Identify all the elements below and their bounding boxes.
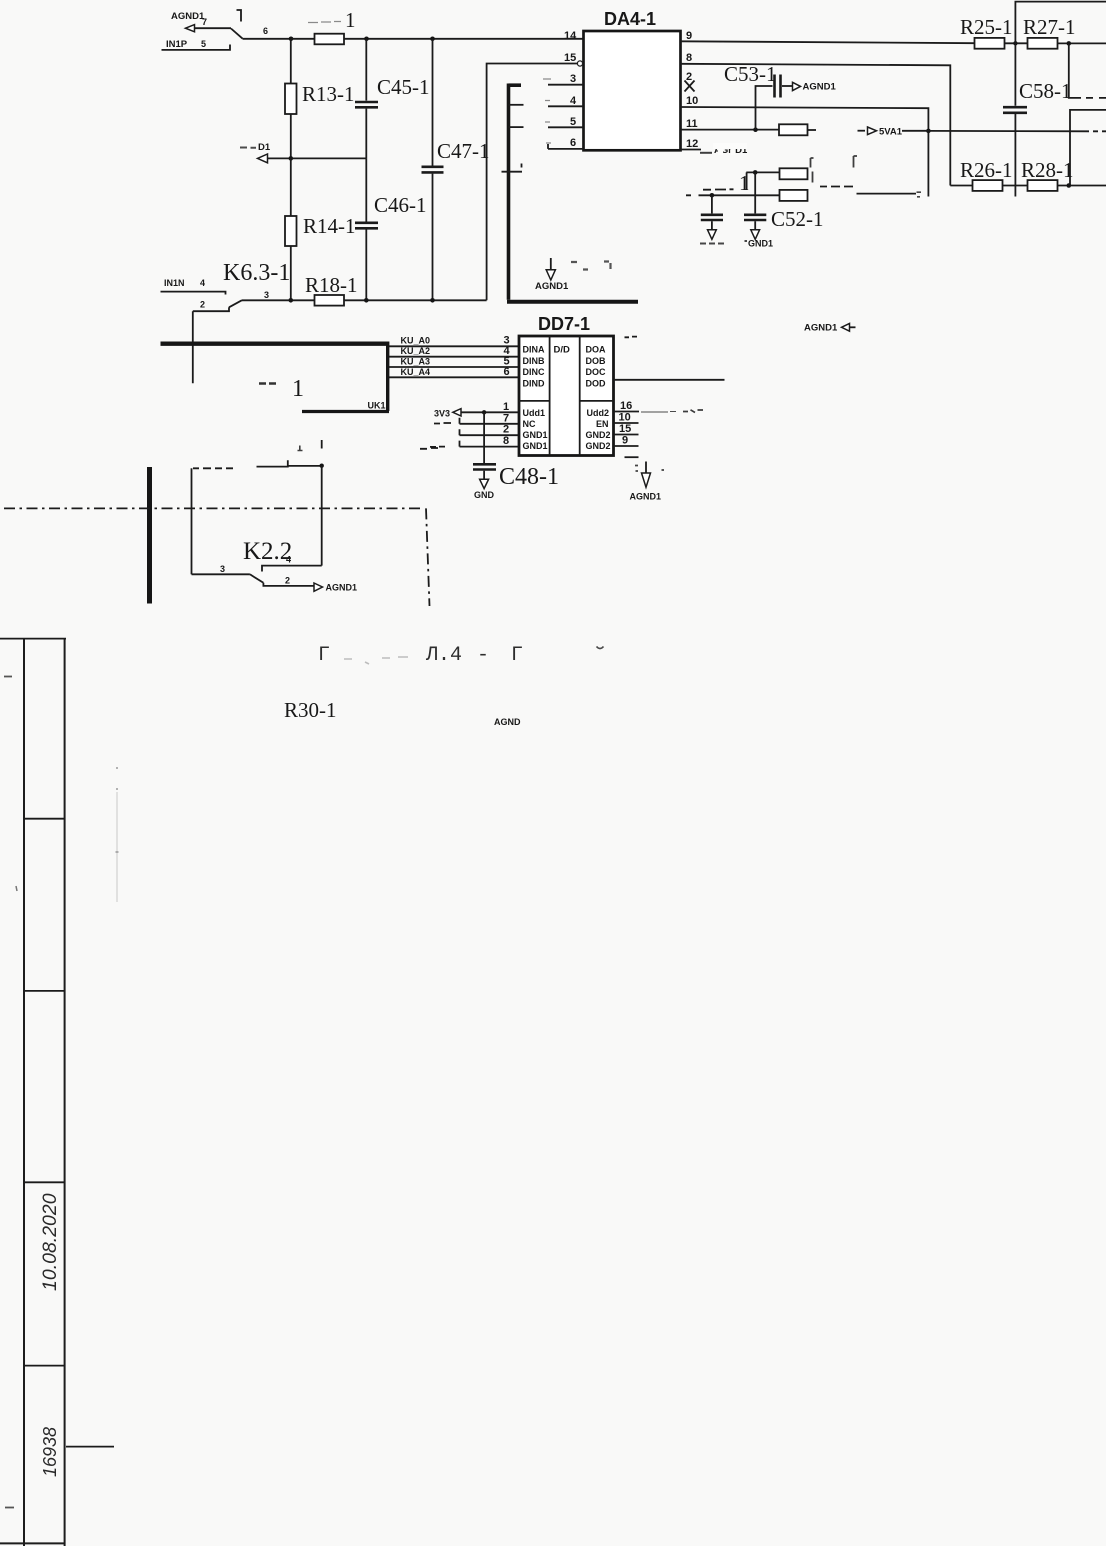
svg-text:10: 10 bbox=[686, 95, 698, 107]
title block bottom border bbox=[0, 1542, 65, 1544]
erased remnant right of R23 bbox=[812, 172, 814, 183]
erased label remnants inside UK1 box bbox=[259, 376, 304, 402]
svg-text:K2.2: K2.2 bbox=[243, 538, 292, 565]
wire AGND1 arrow to node D bbox=[268, 157, 367, 159]
svg-text:UK1: UK1 bbox=[368, 401, 386, 411]
resistor R21 (label erased) body on pin11 row bbox=[779, 124, 808, 135]
resistor R26-1 body bbox=[973, 180, 1003, 191]
capacitor C46-1 bottom wire bbox=[365, 230, 367, 301]
svg-text:10.08.2020: 10.08.2020 bbox=[39, 1193, 61, 1291]
erased 5VA1 remnant marks bbox=[683, 410, 703, 413]
svg-text:3: 3 bbox=[264, 290, 269, 300]
IC DD7-1 body box bbox=[519, 336, 614, 456]
svg-text:4: 4 bbox=[286, 555, 291, 565]
resistor R27-1 body bbox=[1028, 38, 1058, 49]
erased resistor R24 body bbox=[780, 190, 808, 201]
relay contact K2.2 pin3 lead bbox=[192, 573, 250, 575]
relay contact K6.3-1 pin2 lead bbox=[193, 307, 229, 311]
wire R21 to erased component bbox=[808, 129, 817, 131]
net arrow AGND1 (K2.2 pin2) bbox=[314, 583, 323, 591]
svg-text:1: 1 bbox=[292, 376, 304, 402]
svg-text:15: 15 bbox=[564, 52, 576, 64]
svg-text:R30-1: R30-1 bbox=[284, 698, 337, 722]
thin erased continuation of pin16 wire bbox=[641, 411, 676, 414]
capacitor C51 stem to ground arrow bbox=[711, 221, 713, 230]
svg-text:R26-1: R26-1 bbox=[960, 158, 1013, 182]
capacitor C53-1 riser and left lead bbox=[756, 86, 773, 130]
svg-text:1: 1 bbox=[739, 171, 750, 195]
svg-text:D/D: D/D bbox=[554, 345, 571, 356]
net arrow 3V3 (open triangle left) bbox=[453, 409, 461, 416]
svg-text:C48-1: C48-1 bbox=[499, 464, 559, 490]
svg-text:GND1: GND1 bbox=[523, 441, 548, 451]
svg-text:7: 7 bbox=[503, 412, 509, 424]
svg-text:GND1: GND1 bbox=[748, 239, 773, 249]
svg-text:5: 5 bbox=[570, 116, 576, 128]
junction dot R27 output bbox=[1067, 41, 1072, 46]
relay contact K6.2 pin7 AGND1 label bbox=[171, 11, 207, 27]
erased wire dashes to edge y98 bbox=[1086, 97, 1106, 99]
erased dashes under 3V3 bbox=[434, 422, 451, 425]
capacitor C52-1 stem to ground arrow bbox=[754, 221, 756, 230]
capacitor C53-1 plates (vertical) bbox=[775, 75, 781, 98]
pin 2 no-connect X mark bbox=[685, 81, 695, 92]
pin 6 stub wire with erased hook bbox=[548, 144, 583, 149]
wire KU_A4 from UK1 to DD7 pin6 bbox=[389, 376, 518, 378]
wire K6.3-1 pin2 down (dangling into erased area) bbox=[192, 311, 194, 383]
svg-text:14: 14 bbox=[564, 30, 577, 42]
ground arrow AGND1 (C51, open triangle down) bbox=[708, 230, 717, 240]
node C junction dot (C47 top) bbox=[430, 37, 435, 42]
erased IC DA3 left edge (thick) bbox=[507, 84, 511, 300]
svg-text:C46-1: C46-1 bbox=[374, 193, 427, 217]
wire R24 row continuing to riser bbox=[857, 193, 917, 195]
erased connector UK1 bottom edge (thick) bbox=[302, 410, 389, 413]
relay contact K6.2 blade (pin7 to pin6) bbox=[231, 29, 243, 39]
ground symbol AGND1 right of C48 (erased stem) bbox=[630, 462, 665, 502]
resistor R14-1 bottom wire bbox=[290, 246, 292, 300]
title block divider 4 bbox=[24, 1365, 65, 1367]
svg-text:C45-1: C45-1 bbox=[377, 75, 430, 99]
resistor R18-1 body bbox=[315, 295, 345, 306]
svg-text:DINC: DINC bbox=[523, 367, 545, 377]
svg-text:R18-1: R18-1 bbox=[305, 273, 358, 297]
wire from AGND1 arrow to switch blade bbox=[195, 27, 232, 29]
svg-text:DOC: DOC bbox=[586, 367, 607, 377]
svg-text:AGND: AGND bbox=[494, 717, 521, 727]
svg-text:4: 4 bbox=[200, 278, 205, 288]
net arrow AGND1 at node D (open triangle left) bbox=[258, 154, 268, 163]
wire DD7 pin16 (5VA1 erased) bbox=[614, 411, 640, 413]
net arrow AGND1 (top left, open triangle) bbox=[186, 25, 195, 32]
terminal line IN1P with end tick bbox=[162, 45, 231, 50]
junction dot C51 tap bbox=[710, 193, 715, 198]
junction dot 5VA1 node bbox=[926, 129, 931, 134]
svg-text:Udd2: Udd2 bbox=[587, 408, 610, 418]
wire R24 to erased region remnants bbox=[820, 186, 853, 188]
resistor R14-1 body bbox=[285, 216, 297, 246]
wire riser to DA4 pin15 bbox=[487, 64, 578, 301]
capacitor C46-1 top wire bbox=[365, 158, 367, 221]
terminal IN1P pin5 label bbox=[166, 39, 206, 50]
erased remnant marks above hook bbox=[298, 446, 303, 451]
terminal IN1N pin4 label bbox=[164, 278, 205, 288]
erased dashes right of DD7 top bbox=[625, 336, 638, 339]
erased IC DA3 pin stub y127 bbox=[509, 126, 524, 128]
capacitor C45-1 bottom wire bbox=[365, 109, 367, 159]
dash-dot boundary horizontal bbox=[4, 507, 422, 509]
svg-text:R14-1: R14-1 bbox=[303, 214, 356, 238]
faint dots scan artifacts bbox=[116, 768, 119, 852]
erased dashes right of junction bbox=[420, 447, 438, 450]
resistor R25-1 body bbox=[975, 38, 1005, 49]
wire R27-1 to right edge bbox=[1058, 42, 1106, 44]
svg-text:AGND1: AGND1 bbox=[171, 11, 205, 22]
ground symbol AGND1 under erased IC DA3 bbox=[535, 258, 569, 292]
svg-text:3: 3 bbox=[220, 564, 225, 574]
svg-text:16938: 16938 bbox=[40, 1427, 60, 1477]
svg-text:DA4-1: DA4-1 bbox=[604, 9, 656, 29]
svg-text:2: 2 bbox=[686, 71, 692, 83]
wire DD7 pin7 with hook bbox=[460, 418, 519, 424]
svg-text:C52-1: C52-1 bbox=[771, 207, 824, 231]
junction dot C52 top tap bbox=[753, 170, 758, 175]
svg-text:1: 1 bbox=[503, 401, 509, 413]
stray mark left margin 2 bbox=[16, 886, 17, 891]
svg-text:GND2: GND2 bbox=[586, 441, 611, 451]
svg-text:R25-1: R25-1 bbox=[960, 15, 1013, 39]
resistor R13-1 wire bottom to AGND node bbox=[290, 114, 292, 158]
capacitor C48-1 stem bbox=[483, 471, 485, 480]
capacitor C47-1 bottom wire bbox=[432, 174, 434, 301]
wire hook from right edge into R28 junction bbox=[1070, 110, 1106, 186]
svg-text:Udd1: Udd1 bbox=[523, 408, 546, 418]
relay contact K2.2 blade bbox=[250, 574, 264, 583]
erased fragment of pin4 riser above junction bbox=[321, 440, 323, 449]
wire DD7 pin2 with hook bbox=[460, 429, 519, 435]
wire DD7 pin8 with hook bbox=[460, 441, 519, 447]
svg-text:8: 8 bbox=[686, 52, 692, 64]
node B junction dot (C45 top) bbox=[364, 37, 369, 42]
erased IC DA3 pin stub y172 crossing edge bbox=[502, 171, 523, 173]
erased IC DA3 top edge fragment bbox=[509, 83, 522, 87]
svg-text:DOD: DOD bbox=[586, 379, 607, 389]
DD7-1 internal horizontal divider bbox=[519, 400, 614, 402]
DD7-1 internal divider right column bbox=[579, 336, 581, 456]
bottom wire blade to node E bbox=[242, 299, 315, 301]
caption erased tail remnant (breve) bbox=[597, 647, 604, 649]
wire DD7 pin15 bbox=[614, 434, 639, 436]
svg-text:AGND1: AGND1 bbox=[803, 82, 837, 93]
capacitor C48-1 plates bbox=[473, 464, 496, 469]
erased box corner remnants on row y173 bbox=[811, 156, 858, 168]
erased AGND1 label remnant near node D bbox=[240, 142, 271, 153]
svg-text:DINA: DINA bbox=[523, 345, 545, 355]
wire 5VA1 label to junction bbox=[902, 130, 928, 132]
svg-text:6: 6 bbox=[263, 26, 268, 36]
svg-text:K6.3-1: K6.3-1 bbox=[223, 260, 290, 286]
bottom wire R18-1 to pin15 riser bbox=[344, 299, 487, 301]
svg-text:R28-1: R28-1 bbox=[1021, 158, 1074, 182]
svg-text:KU_A0: KU_A0 bbox=[401, 336, 431, 346]
erased wire dashes 5VA1 row to edge bbox=[1093, 130, 1106, 132]
svg-text:10: 10 bbox=[619, 412, 631, 424]
erased label remnant "]" above switch bbox=[237, 10, 242, 22]
erased component remnant dash before 5VA1 bbox=[858, 130, 866, 132]
capacitor C47-1 plates bbox=[422, 167, 444, 173]
svg-text:9: 9 bbox=[622, 434, 628, 446]
erased wire dashes right of riser top bbox=[193, 467, 233, 469]
svg-text:DOB: DOB bbox=[586, 356, 607, 366]
erased resistor R23 row: left end and stub bbox=[746, 172, 779, 189]
capacitor C52-1 plates bbox=[744, 215, 766, 220]
junction dot C53 tap bbox=[753, 127, 758, 132]
capacitor C51 plates bbox=[701, 215, 723, 220]
svg-text:3: 3 bbox=[570, 73, 576, 85]
wire segment with hook to K2.2 pin4 riser bbox=[257, 460, 322, 466]
svg-text:IN1N: IN1N bbox=[164, 278, 185, 288]
title block right vertical border bbox=[64, 639, 66, 1546]
wire DD7 pin9 bbox=[614, 445, 639, 447]
svg-text:5VA1: 5VA1 bbox=[879, 127, 903, 138]
resistor R17 (label erased) body bbox=[315, 34, 345, 45]
ground arrow GND (C48, open triangle down) bbox=[480, 479, 489, 488]
svg-text:4: 4 bbox=[570, 95, 577, 107]
resistor R14-1 top wire bbox=[290, 158, 292, 216]
node A junction dot bbox=[289, 37, 294, 42]
relay contact K2.2 pin2 lead bbox=[263, 583, 313, 586]
svg-text:3V3: 3V3 bbox=[434, 409, 450, 419]
pin 15 inversion circle bbox=[577, 61, 582, 66]
svg-text:7: 7 bbox=[202, 17, 207, 27]
erased AGND1 remnant right of pin12 bbox=[700, 143, 748, 156]
svg-text:9: 9 bbox=[686, 30, 692, 42]
junction dot C47 bottom bbox=[430, 298, 435, 303]
capacitor C47-1 top wire bbox=[432, 39, 434, 166]
stray mark left margin 1 bbox=[4, 676, 12, 678]
svg-text:8: 8 bbox=[503, 435, 509, 447]
capacitor C45-1 plates bbox=[355, 102, 378, 107]
wire DD7 pin10 bbox=[614, 422, 639, 424]
capacitor C46-1 plates bbox=[355, 223, 378, 229]
capacitor C45-1 top wire bbox=[365, 39, 367, 101]
wire DA4 pin10 right then down bbox=[681, 107, 929, 197]
wire DA4 pin9 to R25-1 bbox=[681, 41, 975, 43]
wire K2.2 node riser (left vertical) bbox=[191, 468, 193, 574]
erased label remnant above R17 bbox=[308, 8, 356, 32]
junction dot C58 top node bbox=[1013, 41, 1017, 45]
svg-text:AGND1: AGND1 bbox=[326, 583, 358, 593]
wire switch K6.2 to node A (top wire) bbox=[243, 38, 292, 40]
caption erased word remnants bbox=[344, 657, 408, 664]
resistor R13-1 vertical wire top bbox=[290, 39, 292, 84]
title block divider 2 bbox=[24, 990, 65, 992]
svg-text:6: 6 bbox=[504, 366, 510, 378]
pin 5 stub wire bbox=[548, 126, 583, 128]
thick bus bar left (erased area boundary) bbox=[147, 467, 152, 604]
erased dashes left of pin8 wire bbox=[430, 446, 445, 448]
dash-dot boundary vertical bbox=[426, 508, 430, 606]
small remnant tick above stub bbox=[521, 164, 523, 168]
capacitor C58-1 plates bbox=[1003, 107, 1027, 113]
svg-text:R13-1: R13-1 bbox=[302, 82, 355, 106]
svg-text:1: 1 bbox=[345, 8, 356, 32]
faint vertical scan artifact bbox=[116, 792, 118, 902]
svg-text:6: 6 bbox=[570, 137, 576, 149]
svg-text:DIND: DIND bbox=[523, 379, 545, 389]
svg-text:2: 2 bbox=[503, 424, 509, 436]
pin 3 stub wire bbox=[548, 84, 583, 86]
stray mark left margin 3 bbox=[5, 1507, 14, 1509]
wire DA4 pin11 to R21 bbox=[681, 129, 780, 131]
svg-text:12: 12 bbox=[686, 138, 698, 150]
net arrow 5VA1 (open triangle right) bbox=[868, 127, 877, 135]
erased label dashes above R24 row bbox=[703, 188, 734, 190]
erased IC DA3 bottom edge (thick) bbox=[507, 300, 638, 304]
resistor R28-1 body bbox=[1028, 180, 1058, 191]
ground arrow GND1 (C52, open triangle down) bbox=[751, 230, 760, 240]
erased label remnant C49 inside DA3 area bbox=[571, 262, 611, 270]
svg-text:2: 2 bbox=[285, 576, 290, 586]
erased connector UK1 right edge (thick) bbox=[386, 342, 389, 412]
svg-text:GND1: GND1 bbox=[523, 430, 548, 440]
top wire resistor R17 to DA4 pin14 bbox=[344, 38, 584, 40]
title block top border bbox=[0, 638, 66, 640]
erased stub below pin9 wire bbox=[625, 456, 639, 458]
main top wire node A to resistor R17 bbox=[291, 38, 315, 40]
erased AGND1 label under C51 bbox=[700, 243, 724, 245]
wire corner top right (C58 riser to edge) bbox=[1015, 2, 1106, 106]
junction dot pin4 riser top bbox=[320, 464, 324, 468]
relay contact K2.2 pin4 lead with hook bbox=[262, 566, 322, 572]
svg-text:C47-1: C47-1 bbox=[437, 139, 490, 163]
title block divider 1 bbox=[24, 818, 65, 820]
resistor R13-1 body bbox=[285, 84, 297, 115]
IC DA4-1 body box bbox=[584, 31, 681, 150]
pin 4 stub wire bbox=[548, 105, 583, 107]
capacitor C53-1 right lead bbox=[782, 85, 792, 87]
capacitor C51 (label erased) riser bbox=[711, 195, 713, 213]
wire DA4 pin8 right then down bbox=[681, 64, 951, 186]
capacitor C52-1 riser from top tap bbox=[754, 172, 756, 213]
svg-text:Г: Г bbox=[318, 644, 330, 667]
svg-text:DD7-1: DD7-1 bbox=[538, 314, 590, 334]
svg-text:IN1P: IN1P bbox=[166, 39, 188, 50]
erased connector UK1 top edge (thick) bbox=[161, 342, 388, 346]
capacitor C48-1 riser bbox=[483, 412, 485, 463]
pin 12 stub wire bbox=[681, 149, 702, 151]
svg-text:KU_A4: KU_A4 bbox=[401, 367, 431, 377]
svg-text:C58-1: C58-1 bbox=[1019, 79, 1072, 103]
wire 3V3 to DD7 pin1 bbox=[461, 411, 518, 413]
terminal line IN1N with end tick bbox=[161, 292, 226, 295]
wire KU_A3 from UK1 to DD7 pin5 bbox=[389, 366, 518, 368]
net label GND1 under C52 (partially erased) bbox=[745, 239, 774, 249]
junction dot R28 output bbox=[1067, 183, 1072, 188]
junction dot C48 tap bbox=[482, 410, 486, 414]
title block left vertical border bbox=[23, 639, 25, 1546]
svg-text:AGND1: AGND1 bbox=[630, 492, 662, 502]
svg-text:AGND1: AGND1 bbox=[535, 281, 569, 292]
wire R25-1 to R27-1 bbox=[1005, 42, 1028, 44]
svg-text:16: 16 bbox=[620, 400, 632, 412]
svg-text:C53-1: C53-1 bbox=[724, 62, 777, 86]
DD7-1 internal divider left column bbox=[549, 336, 551, 456]
remnant marks near riser bbox=[917, 192, 922, 197]
node D junction dot bbox=[289, 156, 294, 161]
relay contact K6.3-1 blade bbox=[229, 300, 242, 307]
svg-text:DOA: DOA bbox=[586, 345, 607, 355]
junction dot C46 bottom bbox=[364, 298, 369, 303]
svg-text:KU_A3: KU_A3 bbox=[401, 357, 431, 367]
svg-text:EN: EN bbox=[596, 419, 609, 429]
svg-text:D1: D1 bbox=[258, 142, 271, 153]
erased net label hooks left of pins 3-6 bbox=[543, 79, 551, 143]
net arrow AGND1 for C53-1 bbox=[793, 82, 801, 90]
svg-text:GND2: GND2 bbox=[586, 430, 611, 440]
wire R26-1 to R28-1 bbox=[1003, 185, 1028, 187]
wire pin8 riser to R26-1 bbox=[950, 185, 972, 187]
node E junction dot bbox=[289, 298, 294, 303]
wire K2.2 pin4 riser bbox=[321, 466, 323, 566]
net label AGND1 with left arrow (mid sheet) bbox=[804, 323, 856, 334]
wire R27 junction down and right (to edge, partially erased) bbox=[1069, 43, 1081, 98]
wire R24 row (left dashes to resistor) bbox=[686, 194, 780, 196]
svg-text:NC: NC bbox=[523, 419, 536, 429]
svg-text:2: 2 bbox=[200, 300, 205, 310]
svg-text:R27-1: R27-1 bbox=[1023, 15, 1076, 39]
erased resistor R23 body bbox=[780, 168, 808, 179]
wire R28-1 to right edge bbox=[1058, 185, 1106, 187]
svg-text:11: 11 bbox=[686, 118, 698, 130]
title block divider 3 bbox=[24, 1181, 65, 1183]
wire KU_A2 from UK1 to DD7 pin4 bbox=[389, 356, 518, 358]
capacitor C58-1 bottom wire to R26 row bbox=[1014, 114, 1016, 197]
svg-text:GND: GND bbox=[474, 490, 495, 500]
wire DOD output bbox=[614, 379, 725, 381]
svg-text:DINB: DINB bbox=[523, 356, 545, 366]
svg-text:5: 5 bbox=[201, 39, 206, 49]
svg-text:KU_A2: KU_A2 bbox=[401, 346, 431, 356]
wire 5VA1 node to right edge (end erased) bbox=[928, 130, 1089, 132]
svg-text:15: 15 bbox=[619, 423, 631, 435]
tick line right of title block bbox=[66, 1446, 114, 1448]
svg-text:AGND1: AGND1 bbox=[804, 323, 838, 334]
wire KU_A0 from UK1 to DD7 pin3 bbox=[389, 345, 518, 347]
erased IC DA3 pin stub y105 bbox=[509, 104, 524, 106]
